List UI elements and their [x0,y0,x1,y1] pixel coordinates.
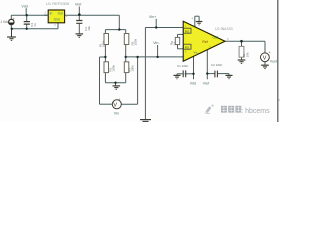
svg-text:Gnd: Gnd [54,17,60,21]
svg-text:U2 INA333: U2 INA333 [215,27,233,31]
svg-text:: hbcems: : hbcems [241,108,270,115]
svg-text:5: 5 [278,98,280,102]
svg-text:10k: 10k [245,52,249,57]
svg-text:Vout: Vout [270,59,277,63]
svg-text:Ref: Ref [202,40,207,44]
svg-text:1 Vdc: 1 Vdc [0,20,9,24]
svg-text:Vdd: Vdd [190,81,196,85]
svg-text:100k: 100k [134,38,138,45]
svg-text:+: + [13,17,15,21]
svg-text:100k: 100k [111,65,115,72]
svg-text:U1 REF5305: U1 REF5305 [46,1,70,6]
svg-text:C1 100n: C1 100n [177,64,189,68]
svg-text:Out: Out [213,36,218,40]
svg-text:Vin: Vin [114,111,119,115]
svg-text:Vref: Vref [203,81,209,85]
svg-text:10u: 10u [87,25,91,30]
svg-text:C2 100n: C2 100n [211,63,223,67]
svg-text:RG: RG [185,45,190,49]
svg-text:Vin+: Vin+ [149,15,156,19]
svg-text:100k: 100k [131,65,135,72]
svg-text:Vdd: Vdd [22,5,28,9]
svg-text:Out: Out [58,12,63,16]
svg-text:In: In [50,12,53,16]
svg-text:Vref: Vref [75,2,81,6]
svg-text:1k: 1k [173,41,177,45]
svg-text:V-: V- [194,24,197,28]
svg-text:r: r [278,9,279,13]
svg-text:V: V [113,103,117,109]
svg-text:V: V [263,56,267,62]
svg-text:1u: 1u [33,23,37,27]
svg-text:Vin-: Vin- [153,41,160,45]
svg-text:+: + [118,97,120,101]
svg-text:RG: RG [185,29,190,33]
svg-text:V+: V+ [194,50,198,54]
svg-text:100k: 100k [101,40,105,47]
